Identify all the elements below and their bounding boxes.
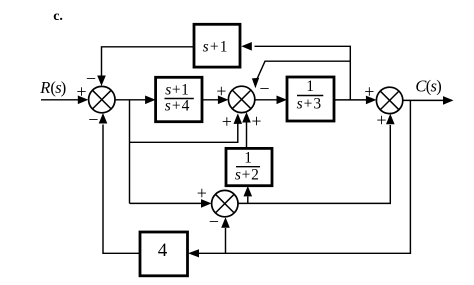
wire H2 output left and up to S1 bottom	[99, 113, 140, 253]
wire S2 output to block G2	[255, 96, 287, 105]
label c.	[53, 9, 63, 24]
wire second feedback to S2 top-right (diagonal)	[252, 61, 350, 88]
sign + (S3 left)	[364, 81, 374, 101]
wire C(s) tap down to bottom feedback line	[188, 100, 410, 257]
wire R(s) input to S1	[41, 96, 88, 105]
svg-text:R: R	[39, 78, 50, 97]
wire branch up into block G3 bottom	[244, 186, 253, 204]
block G3 1/(s+2)	[226, 148, 272, 185]
svg-text:+: +	[222, 112, 232, 132]
sign + (S1 left)	[76, 82, 86, 102]
svg-text:s+2: s+2	[235, 167, 260, 184]
svg-text:−: −	[86, 68, 96, 88]
svg-text:): )	[436, 76, 442, 95]
svg-text:+: +	[197, 183, 207, 203]
block H1 s+1 (top)	[194, 24, 240, 67]
summing junction S4	[212, 190, 238, 216]
sign − (S2 top-right)	[259, 79, 269, 99]
summing junction S1	[89, 86, 115, 112]
svg-text:+: +	[376, 110, 386, 130]
block G1 (s+1)/(s+4)	[156, 77, 202, 121]
svg-text:−: −	[209, 212, 219, 232]
wire G3 output up to S2 bottom-right	[242, 112, 251, 148]
wire G1 output to S2	[202, 96, 228, 105]
wire tap after G2 up to H1 input	[241, 42, 350, 100]
node R(s)	[39, 78, 66, 97]
sign + (S4 left)	[197, 183, 207, 203]
svg-text:s+1: s+1	[165, 81, 189, 98]
wire tap S1-output down, branch to S2 bottom-left	[130, 100, 243, 204]
svg-text:1: 1	[244, 150, 252, 167]
svg-text:−: −	[88, 110, 98, 130]
wire G2 output to S3	[334, 96, 376, 105]
svg-text:1: 1	[306, 78, 314, 95]
sign − (S4 bottom)	[209, 212, 219, 232]
svg-text:s+4: s+4	[165, 97, 191, 114]
wire S1 output to block G1	[115, 96, 156, 105]
svg-text:4: 4	[158, 240, 168, 261]
wire S3 output to C(s)	[403, 96, 454, 105]
block H2 gain 4	[140, 232, 188, 276]
svg-text:s+3: s+3	[297, 96, 323, 113]
summing junction S2	[228, 86, 254, 112]
svg-text:c.: c.	[53, 9, 63, 24]
node C(s)	[415, 76, 441, 95]
svg-text:+: +	[251, 111, 261, 131]
svg-text:+: +	[364, 81, 374, 101]
svg-text:s+1: s+1	[203, 39, 229, 56]
sign + (S2 bottom-right)	[251, 111, 261, 131]
sign + (S2 bottom-left)	[222, 112, 232, 132]
wire branch to S4 left input	[130, 199, 212, 208]
wire branch up to S4 bottom	[221, 217, 230, 253]
wire H1 output to S1 top	[97, 47, 194, 86]
svg-text:−: −	[259, 79, 269, 99]
sign − (S1 bottom)	[88, 110, 98, 130]
sign + (S3 bottom)	[376, 110, 386, 130]
summing junction S3	[376, 87, 402, 113]
sign − (S1 top)	[86, 68, 96, 88]
svg-text:): )	[61, 78, 67, 97]
sign + (S2 left)	[216, 81, 226, 101]
wire S4 output right and up to S3 bottom	[238, 114, 395, 204]
block G2 1/(s+3)	[287, 77, 334, 121]
